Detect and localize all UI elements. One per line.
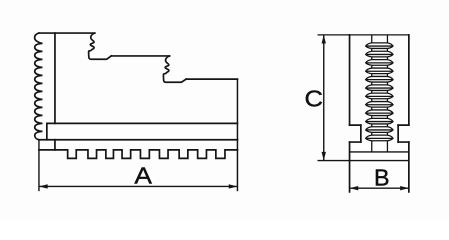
left bottom vertical + dim A left extension (38, 140, 40, 191)
body left edge (349, 35, 351, 125)
dimension A arrowheads (39, 184, 238, 188)
dimension B line (350, 187, 409, 189)
step face serration notch 1 (89, 33, 112, 59)
dimension B arrowheads (350, 186, 409, 190)
dimension C arrowheads (322, 35, 326, 161)
flange bottom + C bottom extension (318, 160, 409, 162)
guide band bottom line (39, 139, 238, 141)
flange sides + B extensions (350, 142, 409, 192)
thread root lines through flange (372, 141, 388, 152)
bottom cross-serration teeth (39, 150, 238, 159)
dimension A line (39, 185, 238, 187)
svg-text:C: C (304, 86, 323, 112)
step face serration notch 2 (163, 56, 186, 82)
serration root line (350, 151, 409, 153)
guide band left cap (46, 123, 48, 139)
body top line + C top extension (318, 34, 409, 36)
body right edge (408, 35, 410, 125)
threaded hole: neck at top (366, 35, 393, 152)
svg-text:B: B (374, 164, 390, 190)
tongue sides (361, 125, 398, 142)
serrated left clamping face (wavy edge) (35, 33, 43, 140)
thread lenses (366, 43, 393, 141)
dimension C line (323, 35, 325, 161)
svg-text:A: A (134, 163, 152, 189)
right view: front view of jaw (318, 35, 409, 192)
third step line (186, 78, 237, 80)
step shoulders to tongue (350, 124, 409, 126)
flange top (350, 141, 409, 143)
guide band (tongue) top (47, 122, 238, 124)
top step line (39, 32, 95, 34)
right edge + dim A right extension (236, 79, 238, 190)
serration root line (vertical) (54, 33, 56, 150)
second step line (111, 55, 169, 57)
